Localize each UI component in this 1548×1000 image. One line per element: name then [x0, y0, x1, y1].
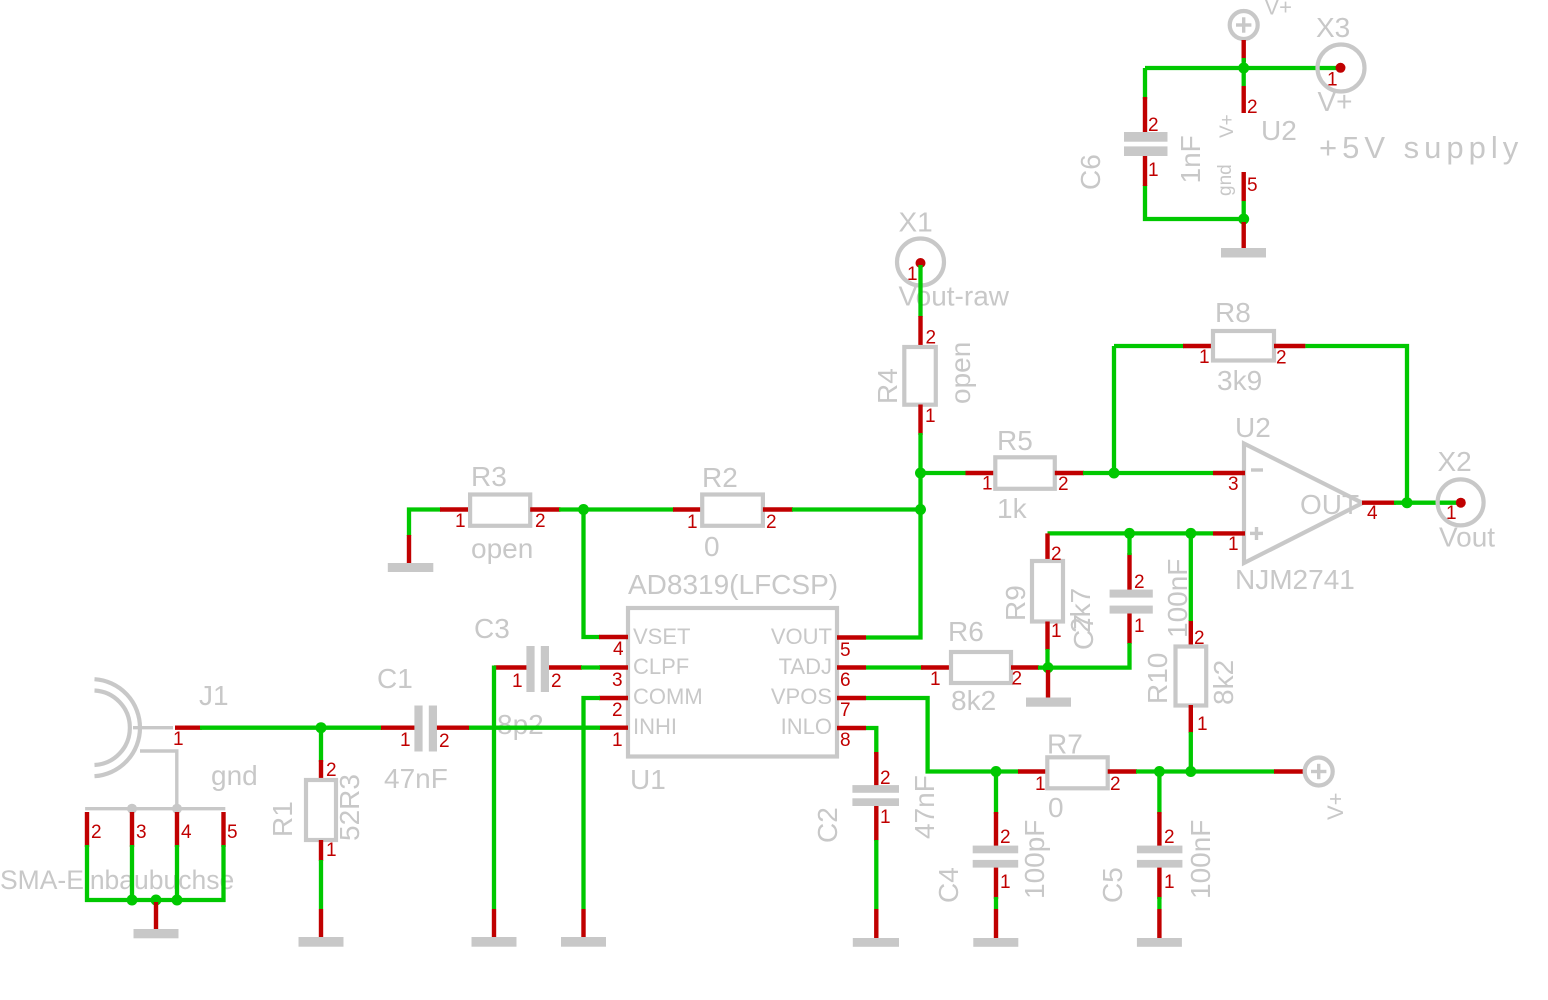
svg-text:open: open	[471, 533, 533, 564]
svg-text:C1: C1	[377, 663, 413, 694]
svg-text:gnd: gnd	[211, 760, 258, 791]
svg-text:5: 5	[840, 640, 851, 661]
svg-text:open: open	[945, 342, 976, 404]
wire	[559, 507, 674, 511]
svg-text:X2: X2	[1438, 446, 1472, 477]
wire	[1242, 201, 1246, 222]
svg-text:2: 2	[91, 822, 102, 843]
svg-text:1: 1	[880, 807, 891, 828]
svg-text:R3: R3	[471, 461, 507, 492]
wire	[1114, 344, 1184, 348]
pin 4 VSET	[599, 635, 628, 639]
svg-text:J1: J1	[199, 680, 229, 711]
svg-text:V+: V+	[1217, 114, 1238, 138]
svg-text:C3: C3	[474, 613, 510, 644]
wire	[1145, 66, 1337, 70]
svg-text:0: 0	[704, 531, 720, 562]
op-amp U2 power pins (V+ / gnd)	[1215, 86, 1297, 201]
wire	[918, 433, 922, 473]
wire	[1305, 346, 1407, 503]
svg-text:1nF: 1nF	[1175, 135, 1206, 183]
ground	[973, 909, 1018, 947]
ground	[853, 909, 899, 947]
svg-text:R9: R9	[1000, 585, 1031, 621]
svg-text:2: 2	[1110, 774, 1121, 795]
wire	[1157, 772, 1161, 815]
svg-text:1: 1	[1134, 616, 1145, 637]
wire	[1083, 471, 1213, 475]
pin 5 VOUT	[837, 635, 866, 639]
wire	[319, 860, 323, 909]
resistor R3 open	[440, 461, 561, 564]
svg-text:C2: C2	[812, 807, 843, 843]
resistor R8 3k9	[1183, 297, 1305, 396]
connector J1 SMA	[85, 679, 237, 847]
wire (VPOS to supply row)	[866, 698, 1019, 772]
wire	[1189, 732, 1193, 772]
svg-text:2: 2	[1000, 827, 1011, 848]
wire	[1145, 185, 1244, 219]
svg-text:INLO: INLO	[781, 714, 832, 739]
svg-text:1: 1	[612, 730, 623, 751]
resistor R4 open	[872, 316, 976, 435]
svg-text:100pF: 100pF	[1019, 820, 1050, 899]
ground	[134, 902, 179, 938]
svg-text:TADJ: TADJ	[779, 654, 832, 679]
svg-text:Vout: Vout	[1439, 522, 1495, 553]
svg-text:2: 2	[551, 671, 562, 692]
svg-text:X3: X3	[1316, 12, 1350, 43]
wire	[1394, 501, 1458, 505]
supply symbol V+ (top)	[1230, 11, 1258, 62]
wire	[1127, 533, 1131, 555]
wire	[1157, 897, 1161, 909]
ground	[472, 909, 517, 947]
supply symbol V+ (right)	[1274, 758, 1348, 821]
svg-text:INHI: INHI	[633, 714, 677, 739]
svg-text:2: 2	[1148, 115, 1159, 136]
svg-text:C4: C4	[933, 867, 964, 903]
svg-text:8k2: 8k2	[951, 685, 996, 716]
svg-text:2: 2	[535, 511, 546, 532]
svg-text:R6: R6	[948, 616, 984, 647]
wire	[409, 510, 441, 537]
svg-text:47nF: 47nF	[909, 775, 940, 839]
wire	[85, 898, 226, 902]
svg-text:R8: R8	[1215, 297, 1251, 328]
pin 1 INHI	[599, 726, 628, 730]
resistor R2 0	[673, 462, 793, 562]
wire	[1242, 58, 1246, 86]
svg-text:52R3: 52R3	[334, 774, 365, 841]
wire	[1189, 533, 1193, 621]
ground	[299, 909, 344, 947]
ground	[1137, 909, 1182, 947]
pin 3 CLPF	[599, 665, 628, 669]
junction	[1402, 497, 1413, 508]
wire	[1048, 531, 1214, 535]
wire	[221, 845, 225, 902]
svg-text:1k: 1k	[997, 493, 1028, 524]
svg-text:1: 1	[930, 669, 941, 690]
junction	[991, 766, 1002, 777]
svg-text:2: 2	[1051, 544, 1062, 565]
capacitor C4 100pF	[933, 812, 1050, 903]
junction	[1043, 662, 1054, 673]
wire	[1046, 643, 1130, 668]
svg-text:4: 4	[1367, 503, 1378, 524]
wire	[319, 728, 323, 762]
resistor R9 2k7	[1000, 533, 1096, 650]
ground	[1221, 222, 1266, 258]
junction	[915, 468, 926, 479]
wire (J1 to C1)	[200, 726, 382, 730]
junction	[578, 504, 589, 515]
svg-text:1: 1	[1197, 714, 1208, 735]
junction	[1185, 528, 1196, 539]
svg-text:5: 5	[227, 822, 238, 843]
svg-text:1: 1	[173, 729, 184, 750]
svg-text:R2: R2	[702, 462, 738, 493]
pin 2 COMM	[599, 696, 628, 700]
wire (C3/ground column)	[492, 666, 496, 910]
svg-text:1: 1	[1051, 621, 1062, 642]
svg-text:2: 2	[766, 512, 777, 533]
svg-text:V+: V+	[1323, 792, 1348, 820]
svg-text:1: 1	[1164, 872, 1175, 893]
ground	[561, 909, 606, 947]
svg-text:SMA-Einbaubuchse: SMA-Einbaubuchse	[0, 865, 234, 895]
wire	[866, 665, 923, 669]
svg-text:2: 2	[1247, 97, 1258, 118]
svg-text:3: 3	[1228, 474, 1239, 495]
svg-text:U2: U2	[1235, 412, 1271, 443]
wire	[130, 845, 134, 900]
capacitor C1 47nF	[377, 663, 469, 794]
svg-text:1: 1	[1199, 347, 1210, 368]
ground	[388, 535, 434, 572]
svg-text:1: 1	[1228, 534, 1239, 555]
junction	[316, 722, 327, 733]
wire	[994, 897, 998, 909]
svg-text:U2: U2	[1261, 115, 1297, 146]
svg-text:1: 1	[1000, 872, 1011, 893]
op-amp U2 NJM2741	[1213, 412, 1396, 595]
pin 8 INLO	[837, 726, 866, 730]
junction	[1154, 766, 1165, 777]
wire (COMM to ground)	[584, 698, 601, 909]
wire	[918, 473, 922, 510]
svg-text:X1: X1	[899, 207, 933, 238]
junction	[127, 895, 138, 906]
svg-text:8: 8	[840, 730, 851, 751]
svg-text:NJM2741: NJM2741	[1235, 564, 1355, 595]
capacitor C2 47nF	[812, 752, 940, 843]
wire (INHI row)	[468, 726, 600, 730]
svg-text:1: 1	[925, 406, 936, 427]
capacitor C6 1nF	[1075, 97, 1206, 190]
pin 6 TADJ	[837, 665, 866, 669]
svg-text:1: 1	[455, 511, 466, 532]
wire	[921, 471, 967, 475]
wire	[581, 665, 600, 669]
resistor R1 52R3	[267, 760, 365, 861]
pin 7 VPOS	[837, 696, 866, 700]
junction	[151, 895, 162, 906]
svg-text:R4: R4	[872, 368, 903, 404]
svg-text:R7: R7	[1047, 729, 1083, 760]
svg-text:1: 1	[1035, 774, 1046, 795]
svg-text:2: 2	[1164, 827, 1175, 848]
svg-text:3k9: 3k9	[1217, 365, 1262, 396]
svg-text:OUT: OUT	[1300, 489, 1359, 520]
svg-text:VSET: VSET	[633, 624, 690, 649]
svg-text:1: 1	[982, 474, 993, 495]
svg-text:C6: C6	[1075, 154, 1106, 190]
resistor R5 1k	[966, 425, 1085, 524]
wire	[792, 507, 921, 511]
connector X2	[1438, 446, 1484, 525]
wire	[866, 728, 876, 754]
wire	[874, 840, 878, 909]
svg-text:VPOS: VPOS	[771, 684, 832, 709]
svg-text:2: 2	[1012, 669, 1023, 690]
svg-text:3: 3	[136, 822, 147, 843]
svg-text:Vout-raw: Vout-raw	[899, 281, 1010, 312]
svg-text:C5: C5	[1097, 867, 1128, 903]
svg-text:V+: V+	[1318, 86, 1353, 117]
svg-text:4: 4	[181, 822, 192, 843]
svg-text:C7: C7	[1068, 614, 1099, 650]
svg-text:VOUT: VOUT	[771, 624, 832, 649]
svg-text:+5V supply: +5V supply	[1319, 130, 1523, 165]
svg-text:47nF: 47nF	[384, 763, 448, 794]
connector X1	[897, 207, 944, 286]
resistor R6 8k2	[921, 616, 1039, 716]
svg-text:CLPF: CLPF	[633, 654, 689, 679]
svg-text:1: 1	[512, 671, 523, 692]
svg-text:1: 1	[687, 512, 698, 533]
svg-text:AD8319(LFCSP): AD8319(LFCSP)	[628, 569, 838, 600]
wire	[994, 772, 998, 815]
svg-text:3: 3	[612, 670, 623, 691]
svg-text:1: 1	[1327, 70, 1338, 91]
svg-text:R10: R10	[1142, 653, 1173, 704]
ground	[1026, 670, 1071, 707]
svg-text:1: 1	[1148, 160, 1159, 181]
wire	[866, 510, 921, 638]
junction	[1238, 63, 1249, 74]
junction	[915, 504, 926, 515]
svg-text:5: 5	[1247, 175, 1258, 196]
capacitor C3 8p2	[474, 613, 582, 740]
resistor R7 0	[1018, 729, 1137, 824]
wire	[1112, 346, 1116, 473]
svg-text:R5: R5	[997, 425, 1033, 456]
capacitor C7 100nF	[1068, 553, 1193, 650]
svg-text:4: 4	[613, 639, 624, 660]
junction	[1238, 214, 1249, 225]
svg-text:7: 7	[840, 700, 851, 721]
svg-text:V+: V+	[1265, 0, 1293, 20]
junction	[1124, 528, 1135, 539]
svg-text:R1: R1	[267, 801, 298, 837]
wire	[175, 845, 179, 900]
wire	[1136, 769, 1275, 773]
junction	[1185, 766, 1196, 777]
svg-text:8p2: 8p2	[497, 709, 544, 740]
svg-text:2: 2	[1134, 572, 1145, 593]
svg-text:2: 2	[880, 768, 891, 789]
svg-text:0: 0	[1048, 792, 1064, 823]
resistor R10 8k2	[1142, 620, 1239, 735]
junction	[1109, 468, 1120, 479]
svg-text:2: 2	[1194, 628, 1205, 649]
wire	[1038, 665, 1048, 669]
svg-text:1: 1	[326, 840, 337, 861]
svg-text:100nF: 100nF	[1162, 559, 1193, 638]
capacitor C5 100nF	[1097, 812, 1216, 903]
svg-text:6: 6	[840, 670, 851, 691]
svg-text:100nF: 100nF	[1185, 820, 1216, 899]
wire	[85, 845, 89, 902]
wire	[918, 265, 922, 317]
svg-text:2: 2	[926, 328, 937, 349]
IC U1 AD8319(LFCSP)	[599, 569, 866, 795]
junction	[172, 895, 183, 906]
wire	[1045, 649, 1049, 668]
svg-text:8k2: 8k2	[1208, 660, 1239, 705]
svg-text:2: 2	[439, 731, 450, 752]
svg-text:U1: U1	[630, 764, 666, 795]
svg-text:gnd: gnd	[1215, 164, 1236, 196]
svg-text:2: 2	[612, 700, 623, 721]
svg-text:2: 2	[1276, 348, 1287, 369]
wire (VSET drop)	[584, 510, 601, 638]
svg-text:2: 2	[1058, 474, 1069, 495]
connector X3	[1316, 12, 1365, 117]
svg-text:COMM: COMM	[633, 684, 703, 709]
svg-text:1: 1	[400, 730, 411, 751]
wire	[1143, 68, 1147, 99]
